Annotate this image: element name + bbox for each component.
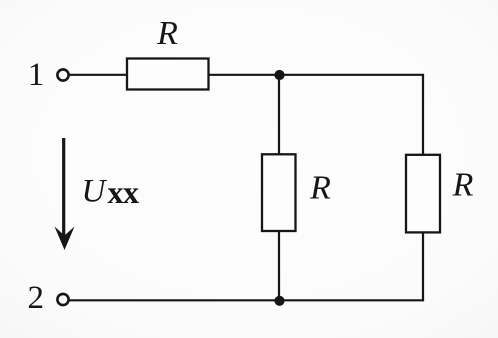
wire: top resistor to top-right corner: [209, 74, 425, 76]
wire: right resistor down to bottom wire: [422, 232, 424, 300]
svg-text:R: R: [156, 15, 178, 52]
wire: terminal 1 to resistor R (top): [70, 74, 128, 76]
resistor R (top, horizontal): [127, 59, 209, 90]
wire: top junction down to middle resistor: [278, 75, 280, 155]
svg-text:1: 1: [28, 57, 45, 93]
node A (top junction dot): [274, 70, 284, 80]
svg-text:R: R: [309, 170, 331, 207]
svg-text:2: 2: [27, 280, 44, 316]
wire: right branch vertical, top corner down to right resistor: [422, 75, 424, 155]
svg-text:xx: xx: [108, 174, 140, 210]
node B (bottom junction dot): [274, 296, 284, 306]
terminal 2 (open circle): [57, 294, 68, 305]
svg-text:U: U: [82, 174, 108, 210]
voltage arrow (shaft): [62, 138, 65, 240]
wire: bottom horizontal from terminal 2 to bottom-right corner: [70, 299, 425, 301]
resistor R (middle, vertical): [262, 154, 296, 231]
terminal 1 (open circle): [57, 69, 68, 80]
wire: middle resistor down to bottom junction: [278, 231, 280, 300]
resistor R (right, vertical): [406, 155, 440, 233]
voltage arrow (head): [55, 227, 75, 251]
svg-text:R: R: [452, 167, 474, 204]
